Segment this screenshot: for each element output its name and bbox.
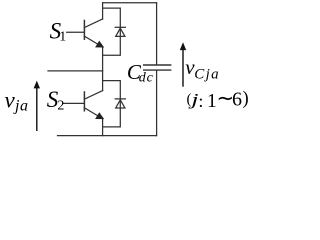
wire bottom rail — [58, 135, 157, 137]
transistor S2 — [63, 91, 103, 119]
diode D1 — [115, 27, 125, 36]
label v_Cja — [185, 55, 220, 83]
voltage arrow v_Cja — [180, 42, 186, 86]
svg-text:Cja: Cja — [194, 67, 220, 83]
svg-text:1: 1 — [59, 30, 66, 45]
transistor S1 — [67, 19, 104, 47]
wire S2 collector lead — [102, 81, 104, 91]
svg-text:v: v — [5, 87, 16, 112]
wire S1 emitter column — [102, 47, 104, 81]
svg-text:2: 2 — [57, 98, 64, 113]
voltage arrow v_ja — [34, 81, 40, 131]
label Cdc — [127, 60, 154, 86]
wire right rail upper — [156, 3, 158, 65]
wire mid node output — [48, 70, 103, 72]
label S2 — [47, 87, 65, 113]
wire S2 emitter column — [102, 119, 104, 136]
wire D1 top branch — [103, 8, 121, 55]
svg-text:dc: dc — [139, 71, 154, 86]
svg-text:): ) — [243, 89, 249, 109]
svg-text::: : — [198, 91, 203, 111]
diode D2 — [115, 99, 125, 108]
svg-text:6: 6 — [232, 89, 242, 111]
capacitor Cdc plates — [143, 65, 171, 70]
label S1 — [50, 19, 67, 45]
svg-text:1: 1 — [207, 91, 217, 112]
wire D2 top branch — [103, 81, 121, 127]
label v_ja — [5, 87, 29, 114]
wire S1 collector lead — [102, 3, 104, 19]
wire right rail lower — [156, 70, 158, 136]
wire top rail — [103, 2, 157, 4]
svg-text:ja: ja — [13, 97, 29, 114]
